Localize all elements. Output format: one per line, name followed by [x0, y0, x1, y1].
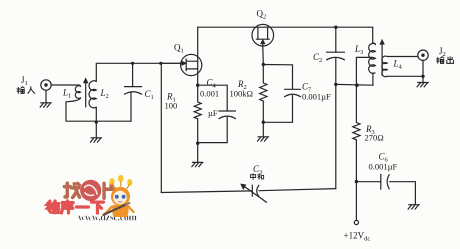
resistor R3: [353, 85, 384, 181]
transistor Q1: [161, 27, 202, 85]
svg-text:C2: C2: [313, 52, 322, 64]
ground (below R1): [192, 162, 203, 166]
node (tap / R3 / node wire): [355, 83, 359, 87]
node (C2 / L3 / R3 node wire): [334, 83, 337, 86]
inductor L3: [354, 43, 375, 73]
wire (Q2 gate down to R2 node): [262, 46, 265, 65]
capacitor C1: [125, 63, 154, 121]
svg-text:100kΩ: 100kΩ: [230, 89, 254, 99]
watermark 找(芯片)logo: [64, 180, 115, 201]
svg-text:L1: L1: [62, 88, 71, 100]
variable capacitor C3 中和: [241, 164, 266, 202]
svg-text:Q1: Q1: [174, 43, 184, 55]
wire (C2 bottom down to neutralizing wire): [335, 58, 337, 188]
core arrow of transformer L3/L4: [380, 40, 384, 75]
svg-text:www.dzsc.com: www.dzsc.com: [78, 213, 138, 224]
wire (R3 node down to +12V terminal): [355, 182, 357, 221]
svg-text:+12Vdc: +12Vdc: [344, 231, 371, 243]
connector J2: [418, 50, 428, 82]
ground (below L2): [90, 138, 101, 142]
ground (right of C6): [408, 205, 419, 209]
inductor L4: [382, 56, 423, 77]
wire (top rail): [198, 26, 373, 28]
node (L4 bottom / J2 ground): [421, 75, 424, 78]
svg-text:Q2: Q2: [257, 9, 267, 21]
capacitor C2: [313, 27, 345, 64]
wire (L2 bottom to ground): [95, 107, 97, 137]
wire (neutralizing wire right of C3): [259, 189, 336, 191]
svg-text:100: 100: [165, 101, 178, 111]
wire (neutralizing wire left of C3): [161, 191, 252, 193]
svg-text:C3: C3: [253, 164, 262, 176]
svg-text:L3: L3: [354, 44, 363, 56]
svg-text:270Ω: 270Ω: [365, 133, 384, 143]
ground (below J2): [417, 83, 428, 87]
wire (L1 bottom to bottom-left rail): [66, 98, 81, 121]
node (R2 bottom / C7 bottom): [262, 121, 265, 124]
transistor Q2: [252, 9, 274, 47]
connector J1: [41, 80, 51, 103]
ground (below R2): [257, 137, 268, 141]
capacitor C4: [198, 78, 236, 143]
node (C1 top on gate rail): [131, 62, 134, 65]
node (R3 bottom / C6 / +12V): [355, 180, 358, 183]
label J2 输出: [437, 46, 454, 63]
svg-text:C1: C1: [145, 89, 154, 101]
svg-text:L4: L4: [393, 59, 403, 71]
label J1 输入: [17, 75, 35, 93]
watermark 维库一下: [47, 201, 103, 213]
wire (L3 tap to R3 column): [356, 57, 373, 85]
node (R1 bottom / C4 bottom): [196, 142, 199, 145]
wire (L3 bottom to node): [372, 73, 374, 85]
wire (gate node down to neutralizing wire): [160, 63, 162, 192]
wire (L2 top to gate rail): [96, 63, 181, 81]
resistor R1: [165, 85, 202, 143]
wire (node wire to L3 bottom / R3 top): [336, 83, 373, 86]
svg-text:0.001: 0.001: [200, 89, 219, 99]
node (Q2 gate / R2 / C7): [262, 63, 265, 66]
capacitor C7: [263, 65, 331, 123]
node (C2 tap on top rail): [334, 26, 337, 29]
wire (bottom-left rail): [66, 120, 131, 122]
terminal +12Vdc: [344, 220, 371, 242]
node (C3 riser on gate rail): [159, 62, 162, 65]
wire (L3 top lead from rail corner): [372, 27, 374, 43]
svg-text:L2: L2: [100, 88, 109, 100]
node (Q1 source / R1 / C4): [196, 84, 199, 87]
inductor L1: [62, 85, 81, 100]
svg-text:J2: J2: [439, 46, 446, 58]
svg-text:0.001µF: 0.001µF: [369, 162, 398, 172]
wire (R2 bottom to ground): [262, 122, 264, 136]
capacitor C6: [356, 152, 415, 205]
inductor L2: [89, 81, 109, 108]
core arrow of transformer L1/L2: [84, 79, 88, 107]
resistor R2: [230, 65, 267, 123]
svg-text:µF: µF: [208, 108, 218, 118]
wire (R1 bottom to ground): [197, 143, 199, 162]
watermark mascot: [104, 175, 134, 217]
svg-text:0.001µF: 0.001µF: [302, 92, 331, 102]
ground (below J1): [40, 103, 51, 107]
svg-text:J1: J1: [21, 75, 28, 87]
wire (J1 to L1): [51, 84, 78, 86]
node (L2 bottom junction): [95, 121, 98, 124]
